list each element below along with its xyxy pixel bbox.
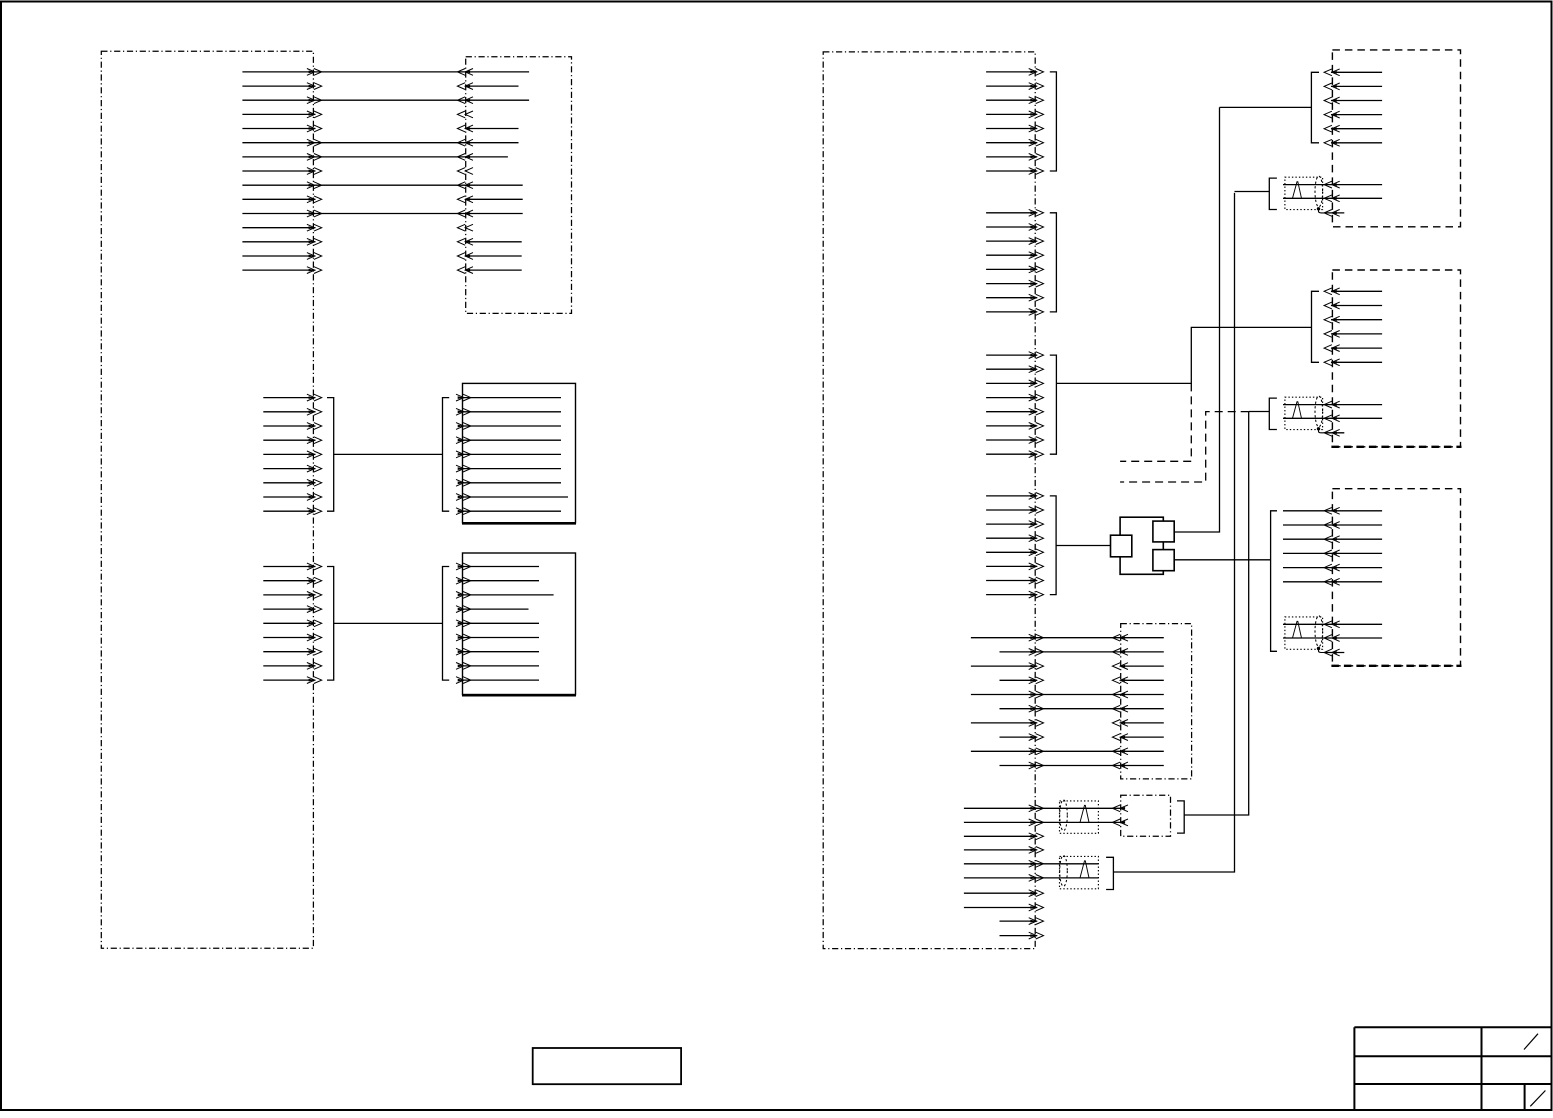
- junction box J2: [1121, 795, 1171, 836]
- wire C row 3: [456, 423, 561, 430]
- bundle bracket H: [1271, 511, 1277, 652]
- wire D row 7: [456, 648, 539, 655]
- wire E stub s1: [964, 833, 1044, 840]
- connector box B (top middle): [466, 57, 572, 314]
- wire A row L3-2: [263, 577, 321, 584]
- shielded pair G shield: [1285, 396, 1326, 433]
- module box C (solid): [462, 383, 576, 523]
- wire E row R2-8: [986, 309, 1043, 316]
- wire C row 7: [456, 479, 561, 486]
- bundle bracket R2: [1050, 213, 1057, 312]
- wire D row 8: [456, 663, 539, 670]
- wire A row L2-7: [263, 479, 321, 486]
- revision box: [533, 1048, 681, 1084]
- wire A row L2-3: [263, 423, 321, 430]
- wire H row 1: [1283, 507, 1382, 514]
- bus wire E to G: [1056, 327, 1311, 383]
- wire A row L3-6: [263, 634, 321, 641]
- wire A-B row 7: [242, 154, 508, 161]
- wire K1 to box H bracket: [1174, 559, 1270, 561]
- wire A row L3-1: [263, 563, 321, 570]
- wire E row R3-5: [986, 408, 1043, 415]
- wire C row 5: [456, 451, 561, 458]
- wire E stub t2: [964, 904, 1044, 911]
- wire D row 3: [456, 592, 554, 599]
- wire G row 3: [1324, 316, 1382, 323]
- shielded pair H wires: [1283, 621, 1382, 642]
- wire A-B row 13: [242, 238, 521, 245]
- wire E row R3-1: [986, 352, 1043, 359]
- wire E row R2-4: [986, 252, 1043, 259]
- wire D row 9: [456, 677, 539, 684]
- wire A row L3-9: [263, 677, 321, 684]
- wire E row R1-7: [986, 154, 1043, 161]
- wire F row 2: [1324, 83, 1382, 90]
- shielded pair F wires: [1283, 181, 1382, 202]
- wire A row L3-8: [263, 663, 321, 670]
- wire C row 6: [456, 465, 561, 472]
- bus wire A to D: [334, 622, 443, 624]
- wire A row L2-1: [263, 394, 321, 401]
- wire E-J row 9: [971, 748, 1164, 755]
- wire E row R3-2: [986, 366, 1043, 373]
- wire A-B row 12: [242, 224, 473, 231]
- wire E row R1-8: [986, 168, 1043, 175]
- bundle bracket R3: [1050, 355, 1057, 454]
- wire C row 9: [456, 508, 561, 515]
- wire E-J row 3: [971, 663, 1164, 670]
- wire D row 4: [456, 606, 529, 613]
- filter / shield B: [1060, 856, 1099, 889]
- wire F row 6: [1324, 139, 1382, 146]
- wire A row L2-6: [263, 465, 321, 472]
- wire E row R3-7: [986, 437, 1043, 444]
- wire G row 2: [1324, 302, 1382, 309]
- wire A-B row 14: [242, 253, 521, 260]
- wire E row R4-7: [986, 577, 1043, 584]
- bundle bracket G: [1312, 291, 1320, 362]
- connector box H: [1331, 489, 1461, 666]
- wire E row R2-2: [986, 224, 1043, 231]
- junction box J: [1121, 624, 1192, 779]
- wire A row L2-2: [263, 408, 321, 415]
- wire E-J row 4: [1000, 677, 1164, 684]
- title block: [1354, 1027, 1551, 1110]
- shielded pair G bracket: [1269, 398, 1277, 429]
- wire F row 4: [1324, 111, 1382, 118]
- wire E-J row 2: [1000, 649, 1164, 656]
- shielded pair G bus wire: [1249, 411, 1270, 413]
- wire E stub u2: [1000, 932, 1044, 939]
- wire G row 6: [1324, 359, 1382, 366]
- wire E stub s2: [964, 847, 1044, 854]
- wire A-B row 10: [242, 196, 522, 203]
- bundle bracket R1: [1050, 72, 1057, 171]
- wire A row L2-8: [263, 494, 321, 501]
- wire D row 1: [456, 563, 539, 570]
- relay K1: [1111, 517, 1175, 574]
- wire H row 5: [1283, 564, 1382, 571]
- wire E row R2-7: [986, 294, 1043, 301]
- shielded pair H shield: [1285, 616, 1326, 653]
- wire E row R1-6: [986, 139, 1043, 146]
- wire A row L2-4: [263, 437, 321, 444]
- wire E row R1-5: [986, 125, 1043, 132]
- shielded pair F bus wire: [1235, 191, 1270, 193]
- wire A-B row 8: [242, 168, 473, 175]
- wire G row 5: [1324, 345, 1382, 352]
- shielded pair G wires: [1283, 401, 1382, 422]
- wire F row 3: [1324, 97, 1382, 104]
- wire A-B row 2: [242, 83, 518, 90]
- wire E row R1-3: [986, 97, 1043, 104]
- wire E-J row 6: [1000, 705, 1164, 712]
- bundle bracket F: [1311, 72, 1319, 143]
- wire E row R4-6: [986, 563, 1043, 570]
- wire E row R4-3: [986, 521, 1043, 528]
- connector box F: [1332, 50, 1460, 227]
- shielded pair F bracket: [1269, 178, 1277, 209]
- wire C row 1: [456, 394, 561, 401]
- bundle bracket L2: [327, 398, 334, 512]
- wire H row 4: [1283, 550, 1382, 557]
- wire A row L3-7: [263, 648, 321, 655]
- shielded pair H drain wire: [1324, 649, 1344, 656]
- wire D row 6: [456, 634, 539, 641]
- bundle bracket B: [1106, 857, 1113, 889]
- wire F row 1: [1324, 69, 1382, 76]
- wire E-J row 5: [971, 691, 1164, 698]
- wire E-J row 8: [1000, 734, 1164, 741]
- wire E row R4-4: [986, 535, 1043, 542]
- wire E-J row 7: [971, 720, 1164, 727]
- wire A-B row 3: [242, 97, 529, 104]
- wire C row 8: [456, 494, 568, 501]
- filter / shield A: [1060, 800, 1099, 833]
- connector box G: [1331, 270, 1461, 447]
- wire A-B row 4: [242, 111, 473, 118]
- bus wire F: [1220, 106, 1312, 108]
- wire K1 to box F bracket: [1174, 107, 1219, 532]
- wire C row 4: [456, 437, 561, 444]
- shielded pair G drain wire: [1324, 429, 1344, 436]
- wire F row 5: [1324, 125, 1382, 132]
- wire E row R4-5: [986, 549, 1043, 556]
- wire E row R3-3: [986, 380, 1043, 387]
- module box D (solid): [462, 553, 576, 695]
- wire E row R4-2: [986, 507, 1043, 514]
- wire E-J row 10: [1000, 762, 1164, 769]
- bundle bracket J2: [1177, 801, 1184, 833]
- wire E row R2-1: [986, 209, 1043, 216]
- wire G row 1: [1324, 288, 1382, 295]
- wire A-B row 9: [242, 182, 522, 189]
- bundle bracket R4: [1050, 496, 1056, 595]
- wire E row R2-6: [986, 280, 1043, 287]
- wire E stub u1: [1000, 918, 1044, 925]
- wire H row 2: [1283, 522, 1382, 529]
- wire H row 3: [1283, 536, 1382, 543]
- shielded pair F drain wire: [1324, 210, 1344, 217]
- wire C row 2: [456, 408, 561, 415]
- bundle bracket D: [443, 567, 450, 681]
- wire G row 4: [1324, 331, 1382, 338]
- wire E-J row 1: [971, 634, 1164, 641]
- connector box A (left harness): [101, 51, 313, 948]
- wire A-B row 15: [242, 267, 521, 274]
- wire E row R4-8: [986, 591, 1043, 598]
- wire E row R1-1: [986, 69, 1043, 76]
- wire A-B row 6: [242, 139, 518, 146]
- bus wire B to shield 1: [1113, 193, 1234, 872]
- wire A row L3-5: [263, 620, 321, 627]
- bus wire J2 to shield 2: [1184, 412, 1249, 815]
- wire D row 2: [456, 577, 539, 584]
- wire E row R3-4: [986, 394, 1043, 401]
- wire A-B row 11: [242, 210, 522, 217]
- connector box E (right harness): [823, 52, 1035, 949]
- wire A-B row 1: [242, 69, 529, 76]
- wire E row R3-8: [986, 451, 1043, 458]
- bundle bracket L3: [327, 567, 334, 681]
- wire E row R3-6: [986, 423, 1043, 430]
- shielded pair F shield: [1285, 176, 1326, 213]
- wire A row L2-5: [263, 451, 321, 458]
- wire A-B row 5: [242, 125, 518, 132]
- wire E row R4-1: [986, 493, 1043, 500]
- wire H row 6: [1283, 578, 1382, 585]
- shield return wire L2 (dashed): [1120, 412, 1249, 482]
- wire A row L3-3: [263, 592, 321, 599]
- wire D row 5: [456, 620, 539, 627]
- wire E row R2-5: [986, 266, 1043, 273]
- bus wire A to C: [334, 453, 443, 455]
- bundle bracket C: [443, 398, 450, 512]
- bus wire E to K1: [1056, 545, 1110, 547]
- shield return wire L1 (dashed): [1120, 383, 1191, 461]
- shielded pair E-B wires: [964, 860, 1099, 881]
- wire E stub t1: [964, 890, 1044, 897]
- shielded pair E-J2 wires: [964, 805, 1128, 826]
- wire E row R1-4: [986, 111, 1043, 118]
- wire A row L2-9: [263, 508, 321, 515]
- wire E row R2-3: [986, 238, 1043, 245]
- wire E row R1-2: [986, 83, 1043, 90]
- wire A row L3-4: [263, 606, 321, 613]
